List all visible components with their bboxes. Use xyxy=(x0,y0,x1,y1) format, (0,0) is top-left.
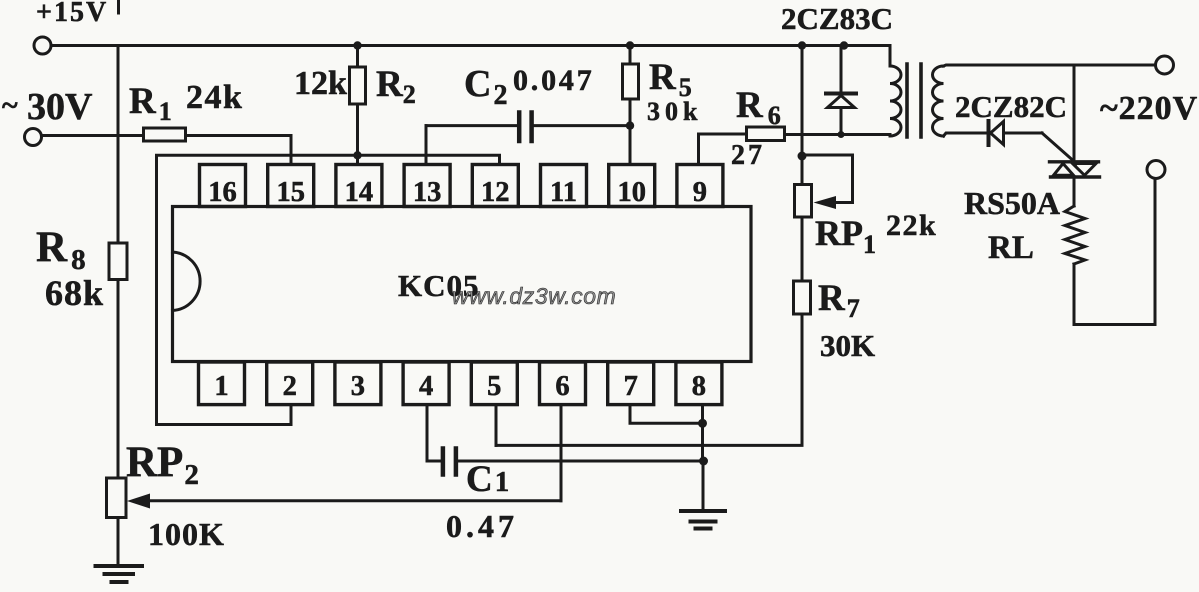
pin 8 xyxy=(676,362,722,405)
pin 4 xyxy=(403,362,449,405)
node rail-D1 junction xyxy=(840,41,848,49)
svg-text:0.47: 0.47 xyxy=(446,508,518,544)
wire vertical x802 rail to RP1 xyxy=(801,46,804,185)
svg-text:3: 3 xyxy=(351,371,365,402)
pin 16 xyxy=(200,165,246,209)
svg-text:R2: R2 xyxy=(376,64,416,109)
node R2 line crosses bus xyxy=(353,151,361,159)
wire gate diagonal to triac xyxy=(1042,133,1077,164)
svg-text:~220V: ~220V xyxy=(1100,90,1198,127)
capacitor C1 0.47 xyxy=(443,449,704,545)
terminal ~220V bottom xyxy=(1147,161,1165,179)
wire RP2 to ground stem xyxy=(117,518,120,566)
svg-text:12: 12 xyxy=(481,177,510,208)
svg-text:12k: 12k xyxy=(294,65,347,102)
triac RS50A xyxy=(964,162,1100,221)
wire RP1 to R7 xyxy=(801,217,804,281)
pin 2 xyxy=(267,362,313,405)
svg-text:C2: C2 xyxy=(464,63,507,111)
svg-text:R1: R1 xyxy=(129,81,172,126)
svg-text:RP2: RP2 xyxy=(126,439,199,491)
resistor R8 68k xyxy=(36,224,127,313)
transformer T1 core xyxy=(907,64,921,137)
wire pin9 riser xyxy=(699,134,747,165)
wire RP1 wiper loop with arrow xyxy=(802,155,853,209)
resistor R6 27 xyxy=(731,85,785,171)
svg-text:7: 7 xyxy=(624,371,638,402)
wire R6 to transformer primary bottom xyxy=(785,133,891,136)
svg-text:30k: 30k xyxy=(647,97,702,126)
wire rail corner down to transformer primary xyxy=(889,46,892,67)
pin 10 xyxy=(609,165,655,209)
wire pin4 to C1 xyxy=(427,405,441,461)
tick top edge xyxy=(117,0,120,13)
svg-text:R6: R6 xyxy=(736,85,781,130)
pin 12 xyxy=(472,165,518,209)
svg-text:22k: 22k xyxy=(886,209,937,242)
potentiometer RP2 100K xyxy=(107,439,225,552)
pin 14 xyxy=(336,165,382,209)
svg-text:9: 9 xyxy=(693,177,707,208)
wire RP2 wiper arrow from pin6 xyxy=(127,494,561,509)
node pin7-pin8 junction xyxy=(698,419,707,428)
svg-text:68k: 68k xyxy=(45,273,104,313)
wire 30V to R1 xyxy=(42,134,144,137)
svg-text:15: 15 xyxy=(276,177,305,208)
svg-text:100K: 100K xyxy=(148,516,225,552)
svg-text:27: 27 xyxy=(731,140,765,171)
resistor R1 24k xyxy=(129,79,243,141)
svg-text:R8: R8 xyxy=(36,224,86,276)
pin 15 xyxy=(268,165,314,209)
wire C2 to pin13 xyxy=(425,126,428,165)
wire R1 to pin15 xyxy=(186,136,292,165)
transformer T1 secondary coil xyxy=(933,66,944,136)
wire pin7 to pin8 xyxy=(630,405,703,424)
node C2-R5 junction xyxy=(626,121,634,129)
node rail-R2 junction xyxy=(353,41,361,49)
wire triac to RL xyxy=(1073,177,1076,206)
svg-text:R7: R7 xyxy=(818,278,860,323)
svg-text:4: 4 xyxy=(419,371,433,402)
svg-text:RL: RL xyxy=(988,230,1034,266)
node rail-RP1 junction xyxy=(798,41,806,49)
svg-text:14: 14 xyxy=(345,177,374,208)
svg-text:~: ~ xyxy=(2,89,18,122)
ground under RP2 xyxy=(96,566,143,582)
svg-text:5: 5 xyxy=(487,371,501,402)
resistor R2 12k xyxy=(294,46,416,110)
node rail-R5 junction xyxy=(626,41,634,49)
diode D2 2CZ82C xyxy=(955,89,1067,145)
wire R8 to RP2 xyxy=(117,280,120,479)
potentiometer RP1 22k xyxy=(795,185,938,260)
resistor RL zigzag xyxy=(988,206,1085,266)
svg-text:1: 1 xyxy=(214,371,228,402)
svg-text:2CZ83C: 2CZ83C xyxy=(781,1,893,36)
wire triac anode from top wire xyxy=(1073,65,1076,161)
IC U1 KC05 body xyxy=(173,207,752,362)
svg-text:C1: C1 xyxy=(466,459,509,500)
pin 9 xyxy=(677,165,723,209)
node C1-ground junction xyxy=(699,457,708,466)
svg-text:www.dz3w.com: www.dz3w.com xyxy=(452,283,616,309)
wire RL to lower 220V terminal xyxy=(1074,179,1155,325)
svg-text:30V: 30V xyxy=(27,86,93,128)
node RP1 wiper junction xyxy=(798,152,807,161)
svg-text:0.047: 0.047 xyxy=(513,64,595,97)
resistor R7 30K xyxy=(794,278,876,363)
wire pin2 bottom loop xyxy=(157,405,292,425)
svg-text:30K: 30K xyxy=(820,328,875,363)
svg-text:R5: R5 xyxy=(649,57,692,102)
wire secondary top to 220V terminal xyxy=(944,65,1156,66)
pin 7 xyxy=(608,362,654,405)
wire ground stem pin8 xyxy=(702,461,705,510)
svg-text:RP1: RP1 xyxy=(815,213,876,259)
wire top +15V rail xyxy=(51,44,890,47)
wire secondary bottom to diode D2 xyxy=(944,133,988,136)
wire pin5 down xyxy=(495,405,498,446)
svg-text:11: 11 xyxy=(550,177,577,208)
pin 5 xyxy=(471,362,517,405)
wire vertical x118 rail to R8 xyxy=(117,46,120,244)
pin 6 xyxy=(540,362,586,405)
wire R7 down to pin5 bus xyxy=(496,314,802,445)
ground under pin8 xyxy=(681,511,725,529)
svg-text:2: 2 xyxy=(283,371,297,402)
pin 3 xyxy=(335,362,381,405)
diode D1 2CZ83C xyxy=(781,1,893,135)
svg-text:24k: 24k xyxy=(186,79,243,116)
svg-text:+15V: +15V xyxy=(36,0,108,28)
resistor R5 30k xyxy=(623,46,703,127)
svg-text:RS50A: RS50A xyxy=(964,185,1060,221)
svg-text:8: 8 xyxy=(692,371,706,402)
capacitor C2 0.047 xyxy=(426,63,630,141)
svg-text:10: 10 xyxy=(617,177,646,208)
node D1 lower junction xyxy=(838,131,845,138)
svg-text:16: 16 xyxy=(208,177,237,208)
wire R5 to pin10 xyxy=(629,99,632,165)
pin 13 xyxy=(404,165,450,209)
pin 1 xyxy=(199,362,245,405)
svg-text:6: 6 xyxy=(555,371,569,402)
wire bus y155 pin2-loop to pin12 xyxy=(157,155,500,424)
terminal ~220V top xyxy=(1100,56,1198,127)
terminal +15V xyxy=(34,0,108,54)
transformer T1 primary coil xyxy=(890,66,901,136)
svg-text:2CZ82C: 2CZ82C xyxy=(955,89,1067,124)
terminal ~30V xyxy=(2,86,93,146)
wire R2 to pin14 xyxy=(356,104,359,165)
svg-text:13: 13 xyxy=(413,177,442,208)
pin 11 xyxy=(541,165,587,209)
wire pin8 down to ground xyxy=(701,405,704,461)
wire pin6 down to RP2 wiper bus xyxy=(560,405,563,501)
